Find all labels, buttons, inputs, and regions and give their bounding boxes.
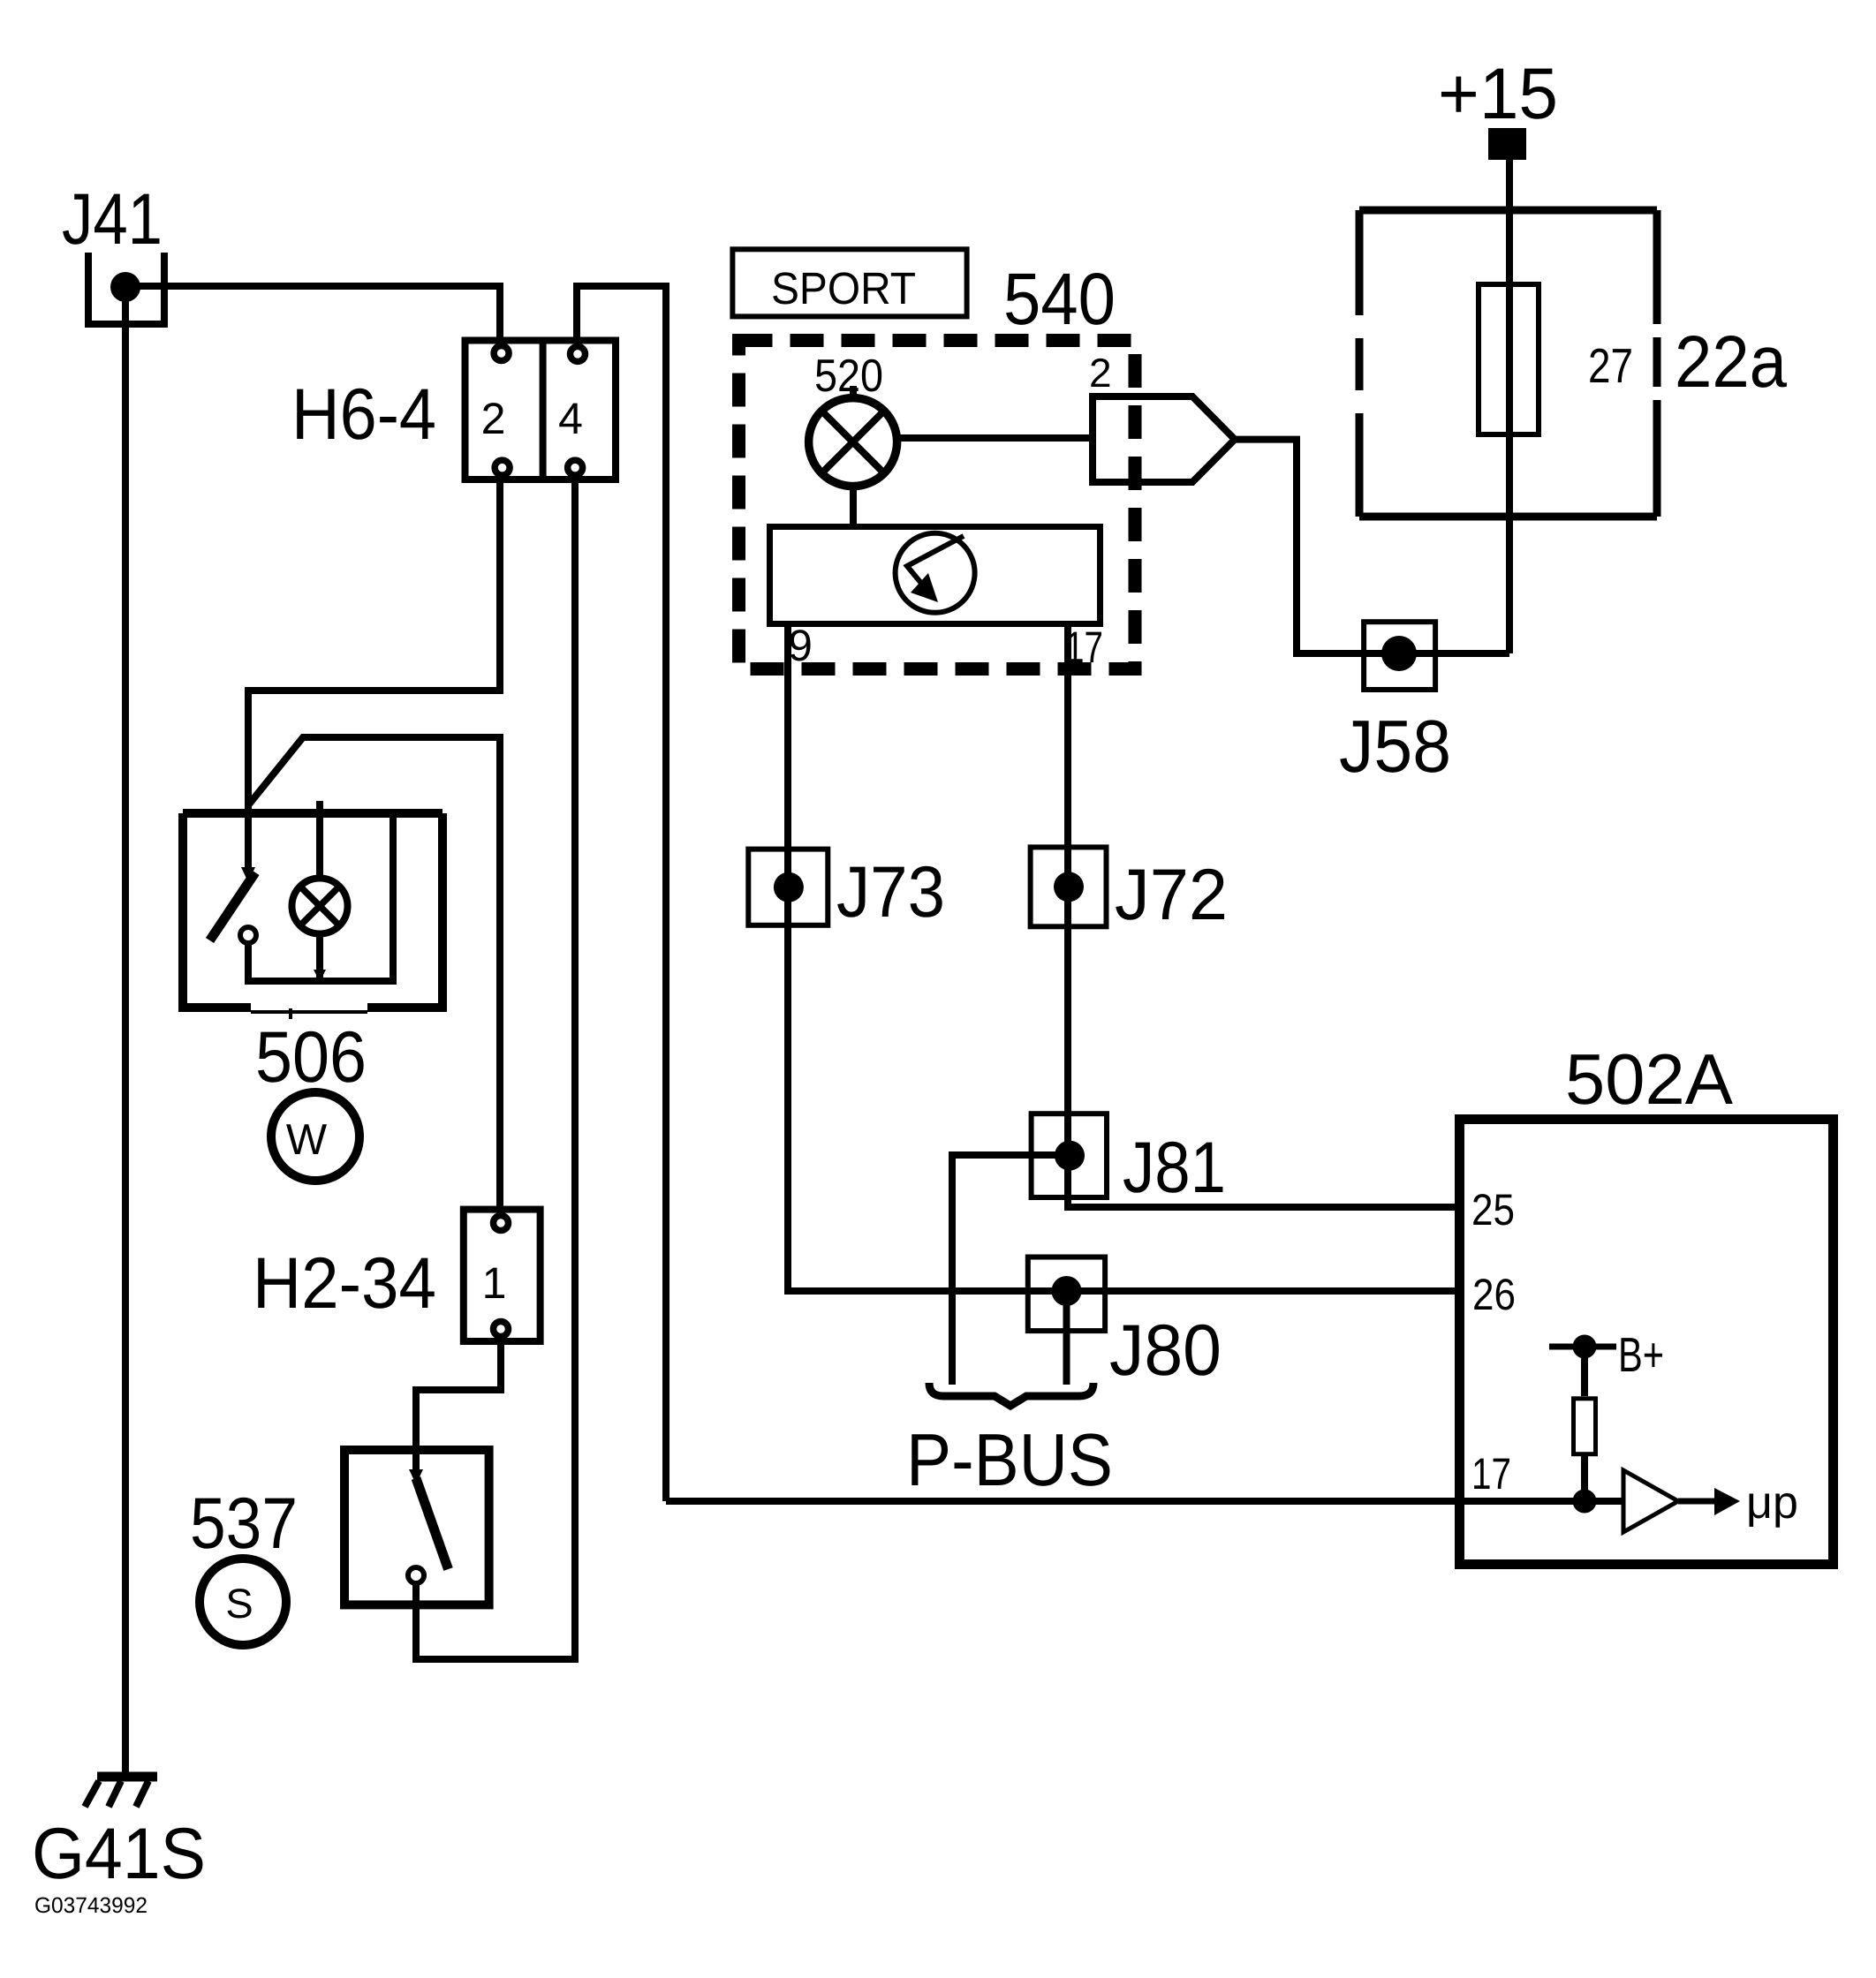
symbol S (seat)	[200, 1559, 286, 1645]
lamp 506 bottom wire	[316, 934, 323, 981]
svg-text:9: 9	[788, 621, 813, 670]
ground symbol	[85, 1777, 157, 1807]
buffer amplifier triangle	[1623, 1470, 1678, 1532]
junction dot J41	[110, 272, 140, 302]
indicator lamp in 506	[292, 879, 348, 934]
wire J41 to H6-4 pin 2	[125, 286, 500, 339]
svg-text:502A: 502A	[1565, 1040, 1733, 1120]
symbol W (window lifter)	[271, 1092, 359, 1181]
switch arm 537	[416, 1478, 449, 1569]
junction dot at pin 17 node	[1573, 1490, 1597, 1514]
svg-text:506: 506	[255, 1017, 367, 1098]
ECU box 502A	[1460, 1120, 1834, 1565]
wire switch 506 output to H2-34 pin 1	[248, 737, 500, 1208]
supply +15 terminal square	[1488, 128, 1526, 160]
svg-text:G03743992: G03743992	[34, 1893, 148, 1918]
svg-text:2: 2	[1089, 350, 1112, 396]
lamp 506 top wire	[316, 801, 323, 878]
svg-text:J81: J81	[1123, 1128, 1226, 1208]
fuse element 27	[1479, 284, 1539, 434]
fuse holder box 22a dashed	[1359, 210, 1657, 517]
connector H2-34	[464, 1210, 541, 1341]
svg-text:22a: 22a	[1675, 321, 1788, 403]
control unit 540 dashed box	[739, 341, 1136, 669]
svg-text:26: 26	[1472, 1270, 1516, 1319]
splice J81	[1032, 1114, 1107, 1197]
wire H2-34 pin 1 to switch 537	[416, 1341, 501, 1450]
component box 506 (heated seat switch)	[178, 813, 447, 1019]
wire J81 to P-BUS left drop	[952, 1155, 1070, 1385]
indicator lamp 520	[809, 386, 897, 487]
moving contact tip 537	[409, 1469, 423, 1484]
svg-text:H6-4: H6-4	[291, 374, 436, 455]
svg-text:540: 540	[1003, 258, 1116, 340]
switch box 537	[344, 1450, 489, 1604]
svg-text:μp: μp	[1746, 1477, 1798, 1529]
wire H6-4 pin 4 to long riser down to 502A pin 17	[577, 286, 666, 1501]
svg-text:P-BUS: P-BUS	[906, 1418, 1113, 1501]
svg-text:J72: J72	[1115, 855, 1228, 935]
splice J72	[1031, 847, 1107, 926]
svg-text:25: 25	[1471, 1185, 1515, 1234]
wire pin 17 through J72 to J81 and 502A pin 25	[1068, 627, 1459, 1207]
fixed contact circle 506	[240, 927, 256, 943]
wire pin 9 through J73 and J80 to 502A pin 26	[788, 627, 1459, 1291]
arrow to microprocessor	[1678, 1488, 1740, 1515]
svg-text:27: 27	[1588, 338, 1633, 393]
splice J73	[748, 849, 828, 925]
moving contact arrowhead 506	[241, 867, 255, 882]
svg-text:SPORT: SPORT	[771, 263, 916, 313]
wire +15 through fuse down to J58 level	[1506, 160, 1513, 653]
B+ junction dot	[1573, 1335, 1597, 1359]
svg-text:2: 2	[481, 394, 506, 443]
pin 2 blade connector	[1093, 396, 1235, 482]
wire P-BUS line into 502A pin 17	[666, 1498, 1623, 1505]
pull-up resistor	[1574, 1347, 1596, 1501]
wire fuse output via J58 to pin 2 connector	[1235, 440, 1509, 653]
connector H6-4	[465, 341, 617, 480]
heater element box	[770, 527, 1101, 624]
svg-text:H2-34: H2-34	[253, 1243, 436, 1324]
svg-text:J80: J80	[1109, 1310, 1222, 1391]
wire lamp 520 to heater element box	[850, 486, 857, 526]
splice J58	[1364, 622, 1435, 690]
svg-text:1: 1	[482, 1258, 507, 1308]
svg-text:W: W	[286, 1116, 328, 1164]
svg-text:17: 17	[1471, 1449, 1511, 1499]
svg-text:B+: B+	[1618, 1327, 1664, 1382]
blower symbol in element box	[896, 533, 975, 613]
switch arm 506	[210, 872, 256, 940]
svg-text:S: S	[225, 1580, 253, 1627]
ground wire from J41	[122, 287, 129, 1777]
P-BUS brace	[929, 1383, 1093, 1406]
lamp 506 bottom arrowhead	[314, 970, 326, 982]
wire switch 537 to H6-4 pin 4	[416, 479, 575, 1659]
svg-text:J73: J73	[836, 852, 945, 932]
svg-text:+15: +15	[1438, 54, 1558, 134]
B+ stub wire	[1549, 1344, 1616, 1350]
wire lamp 520 to pin 2	[896, 434, 1093, 442]
fixed contact circle 537	[408, 1567, 424, 1583]
wire H6-4 pin 2 to switch 506 moving contact	[248, 479, 500, 869]
SPORT mode box	[732, 249, 966, 316]
svg-text:537: 537	[190, 1483, 298, 1564]
svg-text:J41: J41	[62, 179, 163, 260]
svg-text:4: 4	[558, 394, 583, 443]
splice J80	[1028, 1257, 1105, 1332]
wire fixed contact to lamp node 506	[248, 813, 393, 981]
connector J41	[88, 253, 164, 324]
svg-text:G41S: G41S	[32, 1814, 206, 1894]
svg-text:J58: J58	[1339, 705, 1451, 788]
wire into 537	[412, 1450, 420, 1473]
wire J80 to P-BUS right drop	[1063, 1291, 1070, 1385]
